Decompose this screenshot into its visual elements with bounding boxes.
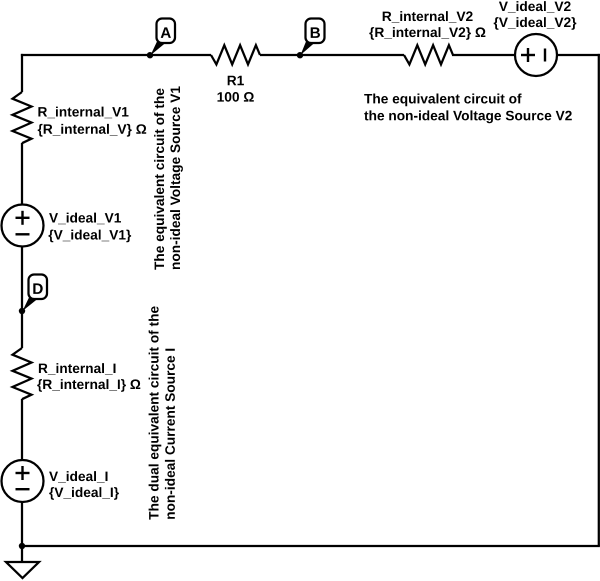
comment text: The equivalent circuit of (V2) line 1 bbox=[364, 94, 521, 107]
node B letter bbox=[311, 27, 320, 38]
node B flag box bbox=[306, 19, 325, 44]
node D letter bbox=[33, 283, 42, 294]
node D flag box bbox=[29, 275, 48, 300]
value label {V_ideal_V1} bbox=[49, 230, 132, 243]
wire: right side vertical bbox=[598, 54, 600, 546]
value label {R_internal_V} Ohm bbox=[38, 124, 147, 137]
label R_internal_I bbox=[39, 363, 116, 375]
node D flag leader bbox=[23, 298, 37, 312]
value label {R_internal_I} Ohm bbox=[37, 379, 140, 392]
wire: left side, R_internal_I through V_ideal_I down to ground node bbox=[21, 399, 23, 562]
wire: left side, top corner to R_internal_V1 bbox=[21, 54, 23, 92]
node A flag box bbox=[157, 19, 176, 44]
rotated comment: The dual equivalent circuit of the (I) line 1 bbox=[149, 306, 162, 519]
node B flag leader bbox=[301, 42, 314, 56]
rotated comment: non-ideal Voltage Source V1 line 2 bbox=[170, 86, 183, 269]
resistor R_internal_I bbox=[13, 348, 32, 399]
value label {V_ideal_V2} bbox=[494, 17, 577, 30]
value label {R_internal_V2} Ohm bbox=[369, 27, 485, 40]
label R1 bbox=[228, 76, 244, 85]
ground symbol bbox=[6, 562, 39, 578]
value label {V_ideal_I} bbox=[49, 487, 119, 500]
value label 100 Ohm bbox=[218, 92, 254, 102]
wire: bottom rail bbox=[21, 545, 600, 547]
node D junction dot bbox=[19, 308, 25, 314]
label V_ideal_I bbox=[49, 471, 107, 483]
resistor R1 bbox=[211, 45, 260, 64]
label V_ideal_V1 bbox=[49, 213, 121, 225]
node A letter bbox=[161, 27, 171, 38]
label R_internal_V1 bbox=[38, 107, 128, 119]
resistor R_internal_V1 bbox=[13, 92, 32, 143]
node A flag leader bbox=[151, 42, 165, 56]
wire: top rail, R_internal_V2 to V_ideal_V2 bbox=[452, 54, 536, 56]
wire: top rail, R1 to R_internal_V2 bbox=[260, 54, 404, 56]
node A junction dot bbox=[147, 52, 153, 58]
voltage source V_ideal_V2 bbox=[515, 34, 557, 76]
wire: top rail, left corner to R1 bbox=[21, 54, 211, 56]
ground junction dot bbox=[19, 543, 25, 549]
wire: top rail, V_ideal_V2 to top-right corner bbox=[536, 54, 600, 56]
rotated comment: The equivalent circuit of the (V1) line 1 bbox=[154, 89, 167, 270]
comment text: the non-ideal Voltage Source V2 line 2 bbox=[364, 110, 572, 123]
voltage source V_ideal_V1 bbox=[2, 205, 44, 247]
voltage source V_ideal_I bbox=[2, 460, 44, 502]
rotated comment: non-ideal Current Source I line 2 bbox=[165, 349, 175, 519]
resistor R_internal_V2 bbox=[404, 45, 453, 64]
wire: left side, R_internal_V1 through V_ideal_V1 and node D to R_internal_I bbox=[21, 143, 23, 348]
node B junction dot bbox=[297, 52, 303, 58]
label V_ideal_V2 bbox=[499, 1, 571, 13]
label R_internal_V2 bbox=[383, 11, 473, 23]
